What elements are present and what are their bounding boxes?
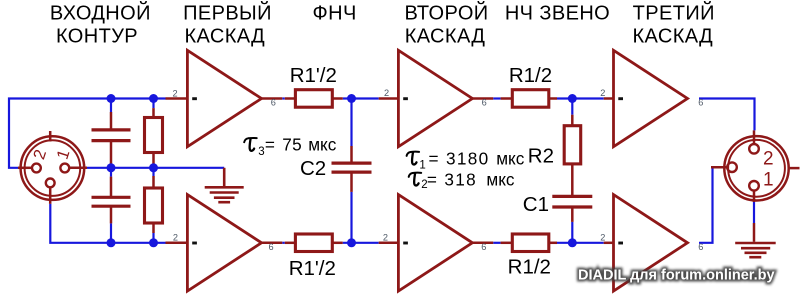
svg-text:6: 6 — [268, 242, 273, 252]
svg-text:2: 2 — [173, 233, 178, 243]
svg-text:КАСКАД: КАСКАД — [633, 25, 714, 47]
svg-text:мкс: мкс — [486, 169, 515, 189]
svg-text:ФНЧ: ФНЧ — [313, 2, 357, 24]
svg-text:R1/2: R1/2 — [509, 64, 552, 87]
svg-text:R2: R2 — [528, 145, 554, 168]
svg-text:6: 6 — [482, 98, 487, 108]
svg-text:R1'/2: R1'/2 — [290, 64, 337, 87]
svg-text:3180: 3180 — [446, 148, 489, 168]
svg-text:2: 2 — [763, 148, 774, 169]
svg-text:1: 1 — [419, 160, 425, 172]
svg-text:КАСКАД: КАСКАД — [185, 25, 266, 47]
svg-text:=: = — [427, 169, 437, 189]
svg-text:ТРЕТИЙ: ТРЕТИЙ — [633, 0, 715, 24]
svg-text:C1: C1 — [523, 193, 549, 216]
svg-text:ПЕРВЫЙ: ПЕРВЫЙ — [183, 0, 272, 24]
svg-text:=: = — [429, 148, 439, 168]
svg-text:3: 3 — [258, 146, 264, 158]
svg-text:2: 2 — [600, 88, 605, 98]
svg-text:6: 6 — [271, 97, 276, 107]
svg-text:6: 6 — [698, 242, 703, 252]
svg-text:ВТОРОЙ: ВТОРОЙ — [404, 0, 488, 24]
svg-text:318: 318 — [444, 169, 477, 189]
svg-text:2: 2 — [600, 233, 605, 243]
svg-text:мкс: мкс — [496, 148, 525, 168]
svg-text:1: 1 — [763, 170, 774, 191]
svg-text:=: = — [265, 134, 275, 154]
svg-text:R1/2: R1/2 — [508, 256, 551, 279]
svg-text:КАСКАД: КАСКАД — [405, 25, 486, 47]
svg-text:2: 2 — [383, 233, 388, 243]
svg-text:6: 6 — [481, 242, 486, 252]
svg-text:75: 75 — [282, 134, 302, 154]
svg-text:ВХОДНОЙ: ВХОДНОЙ — [50, 0, 151, 24]
svg-text:DIADIL для forum.onliner.by: DIADIL для forum.onliner.by — [578, 268, 775, 284]
svg-text:НЧ ЗВЕНО: НЧ ЗВЕНО — [505, 2, 610, 24]
svg-text:2: 2 — [172, 88, 177, 98]
svg-text:R1'/2: R1'/2 — [289, 257, 336, 280]
svg-text:6: 6 — [698, 97, 703, 107]
svg-text:мкс: мкс — [308, 134, 337, 154]
svg-text:C2: C2 — [300, 157, 326, 180]
svg-text:КОНТУР: КОНТУР — [56, 25, 138, 47]
svg-text:2: 2 — [384, 88, 389, 98]
